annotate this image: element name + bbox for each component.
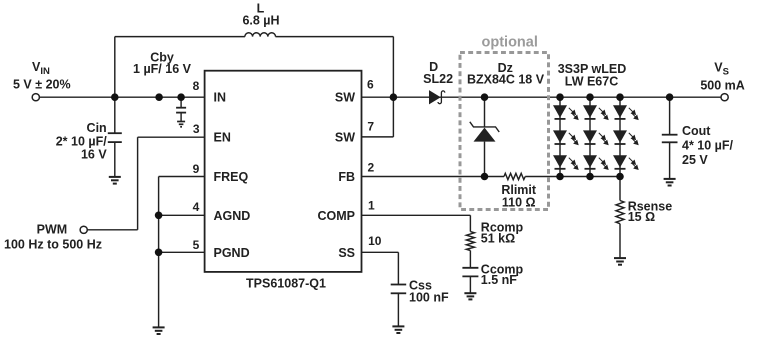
svg-text:9: 9: [193, 162, 200, 176]
svg-text:LW E67C: LW E67C: [565, 75, 619, 89]
svg-text:2* 10 µF/: 2* 10 µF/: [56, 135, 108, 149]
svg-text:500 mA: 500 mA: [700, 79, 744, 93]
svg-text:SW: SW: [335, 131, 355, 145]
svg-text:FREQ: FREQ: [214, 170, 249, 184]
svg-text:SL22: SL22: [423, 72, 453, 86]
svg-text:5: 5: [193, 238, 200, 252]
svg-text:2: 2: [367, 161, 374, 175]
svg-text:Cout: Cout: [682, 124, 711, 138]
svg-text:51 kΩ: 51 kΩ: [481, 231, 515, 245]
svg-text:COMP: COMP: [318, 209, 356, 223]
svg-text:PGND: PGND: [214, 246, 250, 260]
svg-text:5 V ± 20%: 5 V ± 20%: [13, 78, 71, 92]
svg-text:4: 4: [193, 200, 200, 214]
svg-text:10: 10: [368, 234, 382, 248]
svg-text:FB: FB: [338, 170, 355, 184]
svg-text:TPS61087-Q1: TPS61087-Q1: [246, 276, 326, 290]
svg-text:7: 7: [367, 120, 374, 134]
svg-text:15 Ω: 15 Ω: [628, 210, 655, 224]
svg-text:110 Ω: 110 Ω: [502, 195, 536, 209]
svg-text:6: 6: [367, 78, 374, 92]
svg-text:3: 3: [193, 122, 200, 136]
svg-text:optional: optional: [482, 35, 538, 51]
svg-text:AGND: AGND: [214, 209, 251, 223]
svg-text:SW: SW: [335, 91, 355, 105]
svg-text:EN: EN: [214, 131, 231, 145]
svg-text:16 V: 16 V: [81, 148, 107, 162]
svg-text:25 V: 25 V: [682, 153, 708, 167]
svg-text:PWM: PWM: [37, 223, 68, 237]
svg-text:6.8 µH: 6.8 µH: [242, 14, 279, 28]
svg-text:1.5 nF: 1.5 nF: [481, 273, 517, 287]
svg-text:Cin: Cin: [87, 121, 107, 135]
svg-text:4* 10 µF/: 4* 10 µF/: [682, 139, 734, 153]
svg-text:1: 1: [368, 198, 375, 212]
svg-text:IN: IN: [214, 91, 227, 105]
svg-text:100 Hz to 500 Hz: 100 Hz to 500 Hz: [4, 237, 102, 251]
svg-text:8: 8: [193, 79, 200, 93]
svg-text:1 µF/ 16 V: 1 µF/ 16 V: [133, 62, 192, 76]
svg-text:100 nF: 100 nF: [409, 291, 449, 305]
svg-text:BZX84C 18 V: BZX84C 18 V: [467, 73, 545, 87]
svg-text:SS: SS: [338, 246, 355, 260]
